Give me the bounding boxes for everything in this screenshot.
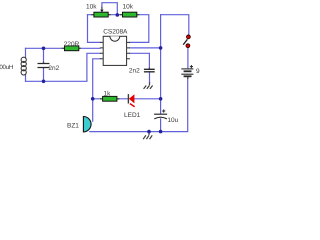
svg-text:2n2: 2n2 [48,65,59,72]
svg-text:00uH: 00uH [0,64,13,71]
svg-text:10k: 10k [123,4,134,11]
svg-text:2n2: 2n2 [129,68,140,75]
svg-text:220R: 220R [64,41,80,48]
svg-text:1k: 1k [104,91,112,98]
svg-text:10u: 10u [167,117,178,124]
svg-text:LED1: LED1 [124,112,141,119]
svg-text:10k: 10k [86,4,97,11]
svg-text:9: 9 [196,68,200,75]
svg-text:BZ1: BZ1 [67,122,79,129]
svg-text:CS208A: CS208A [103,28,128,35]
